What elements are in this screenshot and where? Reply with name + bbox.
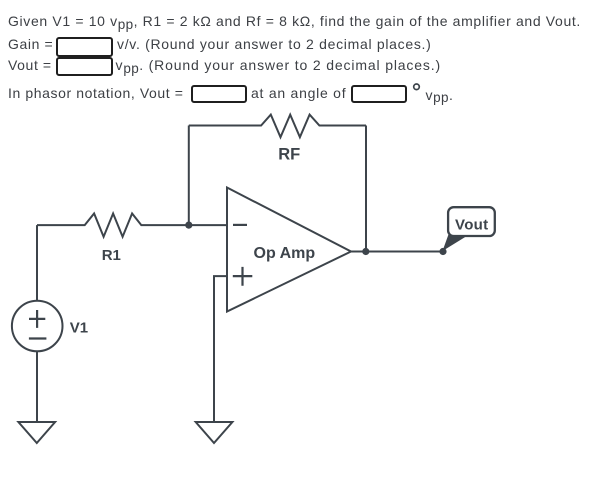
- svg-text:Vout: Vout: [455, 216, 488, 233]
- svg-text:V1: V1: [70, 320, 88, 337]
- svg-text:R1: R1: [102, 247, 121, 264]
- svg-text:Op Amp: Op Amp: [254, 245, 316, 262]
- svg-text:RF: RF: [278, 145, 300, 163]
